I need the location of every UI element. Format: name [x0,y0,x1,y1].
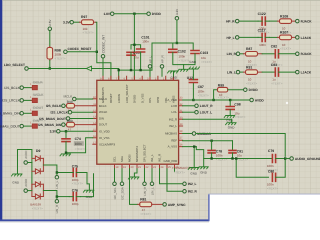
terminal CODEC_RESET [64,47,92,53]
svg-text:R97: R97 [81,15,87,19]
wire R97 to CODEC_RESET [96,22,111,80]
svg-text:C83: C83 [271,63,277,67]
svg-text:IN2_L: IN2_L [169,124,177,128]
wire pair2 output [43,191,57,197]
arrow marker on LDO_SELECT wire [86,66,91,71]
svg-text:CODEC_RESET: CODEC_RESET [68,47,92,51]
terminal 3.3V (R97 pullup) [63,20,73,24]
svg-text:C75: C75 [72,165,78,169]
resistor R90 [66,100,93,113]
terminal clamp B (rotated) [24,178,32,192]
wire 2.5V to R98 [49,31,51,47]
svg-text:100n: 100n [75,142,82,146]
svg-text:DVDD: DVDD [152,12,162,16]
terminal 3.3V at IO_VDD [50,130,60,134]
svg-text:HP_L: HP_L [226,36,234,40]
ground C87 (flipped) [189,60,200,75]
diode D9a [32,156,43,161]
svg-text:GND: GND [189,60,197,64]
terminal RJACK row1 [296,19,313,23]
wire channel1 to ground [80,173,89,191]
sheet border step vertical [208,194,209,221]
terminal I2S_BCLK at R90 [46,104,65,108]
terminal channel2 sense (rotated) [55,197,59,214]
resistor R89 [66,119,93,132]
svg-text:IN1_R: IN1_R [158,154,162,162]
IC left pin names [99,97,115,147]
svg-text:GND_PAD: GND_PAD [164,159,178,163]
svg-text:REF: REF [171,138,177,142]
svg-text:LIN_L: LIN_L [227,71,236,75]
capacitor C101 [137,35,150,52]
terminal I2C_SDA (rotated) [120,182,124,200]
IC top pin names (rotated) [101,84,176,103]
terminal IN2_L [183,182,197,186]
wire decoupling bottom [118,52,153,71]
svg-text:3.3V: 3.3V [175,9,179,15]
capacitor C76 [69,189,80,206]
svg-text:<TEXT>: <TEXT> [246,81,257,85]
wire HP_R to C122 [239,20,258,22]
svg-text:3.3V: 3.3V [63,21,70,25]
svg-text:RESET: RESET [109,93,113,103]
svg-text:CODEC_INT: CODEC_INT [101,35,105,53]
svg-text:I2S_BMAS_DOUT: I2S_BMAS_DOUT [39,117,66,121]
wire channel2 [56,195,70,197]
svg-text:LOUT_L: LOUT_L [200,111,212,115]
terminal I2S_BMAS_DOUT (sheet edge) [0,124,23,128]
svg-text:C103: C103 [200,51,208,55]
svg-text:DOUT: DOUT [99,123,107,127]
resistor R91 [240,65,262,85]
wire 3.3V right rail [176,20,178,44]
terminal MICBIAS [183,132,211,136]
wire SDA down [121,169,123,182]
wire IN3_R row to ground stub [183,118,232,120]
terminal I2S_BMAS_DIN (sheet edge) [0,112,23,116]
svg-text:GND: GND [200,171,208,175]
wire C102 feed [152,43,193,70]
wire CODEC_INT to IC pin [102,58,104,80]
IC left pin numbers [93,96,96,145]
IC top pin stubs [103,76,174,80]
terminal HPL sense (rotated) [148,55,152,76]
svg-text:IO_VSS: IO_VSS [99,136,110,140]
svg-text:GND: GND [228,125,236,129]
terminal LOUT_L [183,110,213,114]
sheet border bottom [0,219,209,221]
terminal LIN_R [227,52,240,56]
capacitor C75 [69,165,83,186]
svg-text:I2S_BCLK: I2S_BCLK [46,104,62,108]
terminal LIN_R bottom (rotated) [143,182,147,196]
svg-text:LIN_R: LIN_R [143,186,147,195]
diode D9b [32,169,43,174]
svg-text:AVDD: AVDD [255,98,264,102]
terminal I2S_LRCLK (sheet edge) [2,99,23,103]
svg-text:SPI_SELECT: SPI_SELECT [143,144,147,162]
IC bottom pin numbers [116,166,179,169]
junction CODEC_RESET [96,51,98,53]
diode D10a [32,182,43,187]
svg-text:RJACK: RJACK [301,52,313,56]
terminal I2S_LRCLK at IC [51,110,93,114]
terminal DVDD right [244,88,259,92]
svg-text:3.3V: 3.3V [50,130,57,134]
svg-text:LOR: LOR [171,104,177,108]
svg-text:LOL: LOL [172,110,178,114]
terminal HPR sense (rotated) [160,54,164,76]
svg-text:MCLK: MCLK [63,95,73,99]
resistor R87 [240,47,262,67]
svg-text:C122: C122 [258,12,266,16]
port DIN [30,119,43,128]
wire to port DOUT [24,112,31,114]
svg-text:A_VSS: A_VSS [168,145,177,149]
svg-text:LIN_L: LIN_L [55,180,59,188]
svg-text:R89: R89 [67,119,73,123]
capacitor C78 [208,141,227,162]
svg-text:D_VSS: D_VSS [140,93,144,103]
svg-text:LIN_L: LIN_L [150,187,154,195]
svg-text:<TEXT>: <TEXT> [267,186,278,190]
svg-text:HP_L: HP_L [148,55,152,63]
svg-text:<TEXT>: <TEXT> [198,93,209,97]
wire LDO_SELECT to IC [29,69,119,81]
svg-text:100p: 100p [72,202,79,206]
svg-text:<TEXT>: <TEXT> [234,115,245,119]
svg-text:DVDD: DVDD [249,88,259,92]
terminal LIN_L bottom (rotated) [150,182,154,195]
svg-text:I2S_BMAS_DOUT: I2S_BMAS_DOUT [0,124,20,128]
svg-text:LDO_SELECT: LDO_SELECT [4,63,25,67]
capacitor C103 [191,51,212,64]
svg-text:MCLK: MCLK [99,97,107,101]
capacitor C87 [189,75,209,100]
IC bottom pin stubs [115,164,175,169]
terminal channel1 sense (rotated) [55,173,59,189]
wire D10 cathode tie [32,184,44,196]
svg-text:I2S_BCLK: I2S_BCLK [4,86,20,90]
IC top pin numbers [100,77,173,80]
svg-text:IN2_R: IN2_R [188,190,198,194]
svg-text:LIN_R: LIN_R [227,52,237,56]
svg-text:AMP_SYNC: AMP_SYNC [168,203,186,207]
wire A_VSS to ground [183,145,197,167]
svg-text:GND: GND [190,172,198,176]
terminal HP_L [226,36,239,40]
terminal CODEC_INT (rotated) [101,35,105,58]
svg-text:C87: C87 [198,85,204,89]
svg-text:R99: R99 [218,83,224,87]
svg-text:100n: 100n [142,40,149,44]
port BCLK [30,80,43,89]
sheet border step horizontal [208,193,320,196]
diode D9 label [36,149,40,153]
terminal LIN_L [227,70,240,74]
svg-text:1.8V: 1.8V [103,12,110,16]
svg-text:D9: D9 [36,149,40,153]
svg-text:2.5V: 2.5V [48,20,52,26]
terminal RJACK row3 [296,52,313,56]
svg-text:LIN_R: LIN_R [55,204,59,213]
svg-text:DVDD: DVDD [133,95,137,103]
terminal 3.3V top right (rotated) [175,9,179,20]
wire decoupling bottom rail [196,147,268,178]
IC left pin stubs [93,99,97,145]
value label TLV320AIC3254 [172,166,194,174]
IC right pin names [165,98,177,149]
terminal AMP_SYNC [163,203,186,207]
svg-text:GND: GND [171,76,177,80]
svg-text:A_VDD: A_VDD [167,98,177,102]
svg-text:RJACK: RJACK [301,20,313,24]
op-amp codec U12 body [97,76,193,164]
stray cursor dot [286,102,288,104]
svg-text:<TEXT>: <TEXT> [218,96,229,100]
svg-text:R87: R87 [246,47,252,51]
wire to port DIN [24,125,31,127]
svg-text:MISO/MFP4: MISO/MFP4 [135,146,139,162]
wire A_VDD rail [183,99,250,101]
svg-text:SCL: SCL [113,156,117,162]
IC right pin stubs [179,100,183,147]
junction DVDD rail [133,13,135,15]
ground A_VSS [188,168,199,176]
svg-text:IN1_L: IN1_L [150,154,154,162]
svg-text:<TEXT>: <TEXT> [179,58,190,62]
wire CODEC_RESET to junction [68,51,97,53]
wire 3.3V to R97 [74,21,80,23]
svg-text:<TEXT>: <TEXT> [75,147,86,151]
port DOUT [30,106,44,115]
svg-text:C102: C102 [178,49,186,53]
svg-text:10u: 10u [134,56,139,60]
svg-text:C98: C98 [234,103,240,107]
terminal HP_R [226,19,239,23]
svg-text:HP_R: HP_R [160,54,164,63]
svg-text:C79: C79 [268,149,274,153]
terminal I2S_BMAS_DIN at R89 [38,123,65,127]
ground channel1 [83,190,94,199]
IC bottom pin names (rotated) [113,144,162,162]
terminal LJACK row4 [296,70,312,74]
ground on pin 44 [168,71,179,80]
svg-text:LJACK: LJACK [301,36,312,40]
ground decoupling rail [198,159,209,175]
svg-text:MOSI: MOSI [128,154,132,162]
wire 1.8V to DVDD [114,13,146,15]
capacitor C82 [262,45,295,68]
svg-text:<TEXT>: <TEXT> [32,207,43,211]
svg-text:<TEXT>: <TEXT> [201,60,212,64]
terminal I2C_SCL (rotated) [113,182,117,199]
svg-text:<TEXT>: <TEXT> [271,81,282,85]
svg-text:MICBIAS: MICBIAS [165,132,177,136]
svg-text:C76: C76 [72,189,78,193]
terminal clamp A (rotated) [24,150,32,164]
ground clamp rail [12,174,23,184]
svg-text:BCLK: BCLK [99,104,107,108]
ground C74 [60,154,71,156]
svg-text:AVDD: AVDD [24,178,28,187]
svg-text:<TEXT>: <TEXT> [72,182,83,186]
svg-text:HPR: HPR [156,97,160,103]
wire 3.3V to IO_VDD [60,130,92,132]
ground below decoupling rail [178,65,189,72]
svg-text:<TEXT>: <TEXT> [174,170,185,174]
junction R98/LDO_SELECT [49,67,51,69]
svg-text:LJACK: LJACK [301,71,312,75]
svg-text:<TEXT>: <TEXT> [140,212,151,216]
resistor R98 [47,47,66,61]
wire decoupling top [131,44,141,49]
wire IN2_R route [167,169,182,192]
resistor R97 [80,15,97,35]
wire MICBIAS to audio ground rail [196,134,285,157]
wire clamp ground rail [18,150,32,191]
svg-text:IN2_L: IN2_L [188,182,197,186]
svg-text:LDOIN: LDOIN [117,94,121,103]
power terminal 2.5V [48,20,52,31]
capacitor C117 [258,28,270,47]
wire REF row [183,140,233,142]
capacitor C100 [127,51,141,60]
svg-text:WCLK: WCLK [99,110,107,114]
terminal DVDD top [147,12,162,16]
diode D10b [32,194,43,199]
svg-text:HPL: HPL [148,97,152,103]
wire R98 to LDO_SELECT net [49,61,51,69]
svg-text:IN2_R: IN2_R [169,117,177,121]
svg-text:I2S_LRCLK: I2S_LRCLK [51,111,69,115]
svg-text:R90: R90 [67,100,73,104]
terminal MCLK at IC [63,95,92,101]
capacitor C122 [258,12,270,35]
wire channel2 out [80,174,93,197]
ground arrow MISO [128,169,139,179]
terminal AVDD [250,98,265,102]
svg-text:DIN: DIN [99,117,104,121]
svg-text:I2C_SDA: I2C_SDA [120,187,124,200]
terminal LOUT_R [183,104,214,108]
svg-text:I2C_SCL: I2C_SCL [113,187,117,200]
svg-text:<TEXT>: <TEXT> [55,57,66,61]
svg-text:SDA: SDA [120,156,124,162]
wire D9 cathode tie [42,158,44,171]
capacitor C74 [62,131,86,152]
port WCLK [30,93,44,102]
capacitor C80 [267,159,285,191]
svg-text:AVDD: AVDD [24,150,28,159]
svg-text:100n: 100n [259,43,266,47]
capacitor C79 [267,149,285,172]
wire IN1_L down [151,169,153,182]
resistor R81 [138,198,163,216]
IC right pin numbers [180,96,183,146]
svg-text:R91: R91 [246,65,252,69]
terminal I2S_BCLK (sheet edge) [4,86,23,90]
ground C98 [224,116,235,123]
capacitor C102 [169,49,190,62]
diode value BAV199 [30,203,43,211]
svg-text:I2S_BMAS_DIN: I2S_BMAS_DIN [0,112,20,116]
svg-text:AUDIO_GROUND: AUDIO_GROUND [295,157,320,161]
svg-text:R107: R107 [280,31,288,35]
resistor R99 [214,83,244,100]
svg-text:LOUT_R: LOUT_R [200,104,213,108]
wire IO_VSS to ground [65,138,93,154]
svg-text:I2S_LRCLK: I2S_LRCLK [2,99,20,103]
junction audio ground [284,157,286,159]
svg-text:C82: C82 [271,45,277,49]
svg-text:HP_R: HP_R [226,20,235,24]
svg-text:SCLK/MFP3: SCLK/MFP3 [99,142,115,146]
capacitor C98 [226,100,246,119]
wire GND_PAD stub [174,169,176,172]
wire DVDD rail down to IC [133,14,135,80]
svg-text:R108: R108 [280,14,288,18]
svg-text:GND: GND [12,180,20,184]
svg-text:LDO_SELECT: LDO_SELECT [125,84,129,103]
svg-text:<TEXT>: <TEXT> [280,47,291,51]
wire C102 C103 ground rail [173,52,195,64]
terminal IN2_R [183,190,198,194]
terminal 1.8V [103,12,114,16]
wire SCL down [114,169,116,182]
top edge line [2,0,320,2]
svg-text:47: 47 [68,127,72,131]
wire pair1 output [43,165,57,173]
svg-text:R81: R81 [140,198,146,202]
svg-text:I2S_BMAS_DIN: I2S_BMAS_DIN [38,123,62,127]
pin GND_PAD name [164,159,178,163]
terminal AUDIO_GROUND [285,157,320,161]
terminal LJACK row2 [296,36,312,40]
svg-text:<TEXT>: <TEXT> [83,31,94,35]
wire to port BCLK [24,87,31,89]
wire to port WCLK [24,99,31,101]
ground on IN3_R row [226,119,237,129]
wire channel1 [56,171,70,173]
resistor R108 [269,14,295,34]
wire SPI_SELECT down [144,169,146,182]
svg-text:C117: C117 [258,28,266,32]
resistor R107 [269,31,295,51]
terminal I2S_BMAS_DOUT at IC [39,117,93,121]
svg-text:C80: C80 [268,169,274,173]
capacitor C83 [262,63,295,86]
sheet border left [0,0,2,221]
wire MOSI to R81 [130,169,138,205]
wire IN2_L route [160,169,183,184]
terminal LDO_SELECT [4,63,28,70]
svg-text:IO_VDD: IO_VDD [99,129,110,133]
capacitor C81 [229,141,248,162]
wire HP_L to C117 [239,36,258,38]
svg-text:C74: C74 [75,137,81,141]
